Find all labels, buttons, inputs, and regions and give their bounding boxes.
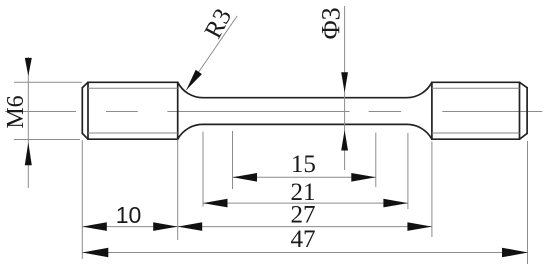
M6 dimension line verticals <box>27 57 29 188</box>
15 right arrow <box>351 173 376 182</box>
svg-text:27: 27 <box>291 202 316 229</box>
10 right arrow <box>153 222 178 231</box>
gauge section with R3 fillets, top <box>178 82 432 97</box>
R3 leader arrow (points down-left) <box>186 70 202 90</box>
left shoulder <box>177 82 179 139</box>
svg-text:10: 10 <box>116 202 142 228</box>
arrowheads <box>25 58 528 257</box>
extension: 27 right / right shoulder down <box>431 142 433 237</box>
extension: 21 right <box>407 133 409 209</box>
10 left arrow <box>82 222 107 231</box>
extension: left end face down <box>81 140 83 259</box>
dim row 15 <box>233 176 376 178</box>
right head top/bottom <box>432 81 520 83</box>
extension: left shoulder down <box>177 139 179 240</box>
Phi3 bottom arrow (up) <box>341 130 348 150</box>
centerline (specimen axis, dash-dot) <box>5 111 542 113</box>
svg-text:Φ3: Φ3 <box>316 7 345 39</box>
left head top/bottom <box>88 81 178 83</box>
svg-text:15: 15 <box>291 151 316 178</box>
dim row 21 <box>203 202 408 204</box>
right chamfer edges <box>519 82 521 139</box>
M6 bottom arrow (up) <box>25 142 32 165</box>
M6 extension lines <box>14 81 82 83</box>
left chamfer edges <box>82 82 88 87</box>
21 left arrow <box>203 199 228 208</box>
27 left arrow <box>178 222 203 231</box>
47 right arrow <box>502 248 528 258</box>
right shoulder <box>431 82 433 139</box>
gauge section with R3 fillets, bottom <box>178 124 432 139</box>
specimen outline: left threaded head <box>82 82 527 139</box>
svg-text:M6: M6 <box>3 95 29 128</box>
Phi3 dimension line <box>344 6 346 170</box>
thread minor-diameter thin lines <box>88 88 520 133</box>
svg-text:47: 47 <box>291 226 316 253</box>
15 left arrow <box>233 173 258 182</box>
extension: 21 left <box>202 132 204 207</box>
extension: right end face down <box>527 141 529 264</box>
21 right arrow <box>383 199 408 208</box>
left end face <box>81 88 83 134</box>
right end face <box>526 88 528 134</box>
dim row 47 <box>82 252 528 254</box>
Phi3 top arrow (down) <box>341 72 348 92</box>
dim row 10 / 27 <box>82 226 432 228</box>
extension: 15 right <box>375 133 377 188</box>
47 left arrow <box>82 248 108 258</box>
R3 leader line <box>186 16 237 90</box>
27 right arrow <box>407 222 432 231</box>
M6 top arrow (down) <box>25 58 32 76</box>
extension: 15 left <box>232 131 234 189</box>
